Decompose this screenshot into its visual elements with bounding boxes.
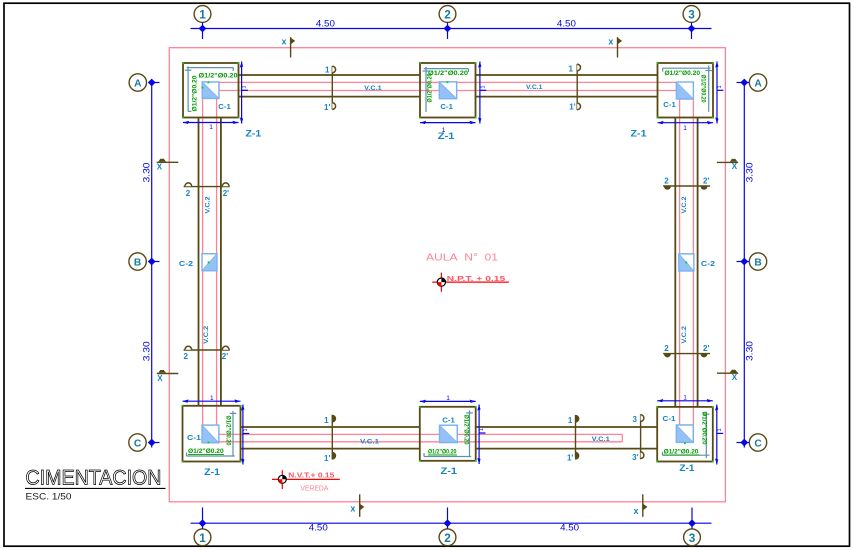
- section mark 1-1' top bay 2: [569, 64, 581, 112]
- section mark 2-2' right beam upper: [663, 177, 710, 190]
- svg-text:V.C.1: V.C.1: [360, 439, 380, 446]
- footing bottom-left rebar lines: [187, 411, 237, 456]
- level marker N.P.T. cross: [432, 273, 509, 292]
- svg-text:Ø1/2"Ø0.20: Ø1/2"Ø0.20: [188, 448, 224, 455]
- svg-text:Ø1/2"Ø0.20: Ø1/2"Ø0.20: [428, 70, 469, 77]
- svg-text:1: 1: [324, 416, 329, 425]
- section cut X bottom 1: [350, 494, 364, 517]
- section cut X top 1: [282, 37, 296, 58]
- svg-text:2': 2': [703, 344, 709, 353]
- grid bubble 3 top: [683, 6, 700, 23]
- footing bottom-right rebar lines: [662, 412, 709, 459]
- svg-text:AULA N° 01: AULA N° 01: [426, 252, 498, 263]
- footing Z-1 top-right square: [658, 63, 714, 118]
- svg-text:X: X: [732, 373, 738, 382]
- svg-text:2: 2: [186, 189, 191, 198]
- svg-text:V.C.1: V.C.1: [526, 84, 543, 91]
- svg-text:X: X: [157, 163, 163, 172]
- svg-text:A: A: [754, 79, 762, 90]
- svg-text:Ø1/2"Ø0.20: Ø1/2"Ø0.20: [701, 412, 708, 445]
- right dimension line: [737, 79, 750, 448]
- footing Z-1 bottom-right square: [657, 407, 713, 462]
- svg-text:2: 2: [664, 344, 669, 353]
- footing top-right rebar lines: [663, 66, 712, 112]
- svg-text:V.C.2: V.C.2: [681, 326, 688, 344]
- svg-text:x: x: [634, 506, 639, 516]
- svg-text:Ø1/2"Ø0.20: Ø1/2"Ø0.20: [428, 448, 457, 455]
- svg-text:1': 1': [569, 103, 575, 112]
- svg-text:C-2: C-2: [701, 259, 715, 268]
- green vertex dot footing top-right: [657, 62, 714, 118]
- beam V.C.1 top bay 1 outline: [239, 75, 421, 97]
- footing bottom-middle rebar label horizontal underlined: [428, 448, 457, 455]
- svg-text:1: 1: [199, 531, 206, 545]
- svg-text:4.50: 4.50: [309, 522, 328, 533]
- svg-text:1: 1: [717, 85, 723, 88]
- svg-text:C-1: C-1: [187, 433, 201, 442]
- beam V.C.1 top bay 2 outline: [476, 75, 658, 97]
- svg-text:2: 2: [664, 177, 669, 186]
- svg-text:2: 2: [184, 352, 189, 361]
- green vertex dot footing bottom-right: [656, 406, 713, 462]
- section mark 1-1' bottom bay 2: [567, 415, 579, 462]
- level marker N.V.T. cross: [272, 470, 340, 489]
- svg-text:1': 1': [567, 454, 573, 463]
- section mark 3-3' bottom bay 2: [632, 415, 644, 463]
- svg-text:X: X: [732, 162, 738, 171]
- svg-text:1: 1: [479, 428, 485, 431]
- svg-text:N.V.T.+ 0.15: N.V.T.+ 0.15: [288, 473, 334, 480]
- pink foundation wall top (horizontal pair): [219, 82, 676, 90]
- svg-text:Z-1: Z-1: [679, 463, 695, 474]
- svg-text:B: B: [134, 258, 141, 269]
- svg-text:1: 1: [446, 395, 450, 402]
- svg-text:1: 1: [243, 428, 249, 431]
- grid bubble B left: [129, 253, 146, 270]
- svg-text:1: 1: [209, 124, 213, 131]
- title CIMENTACION underlined: [25, 466, 166, 489]
- footing bottom-middle height dim: [477, 405, 485, 465]
- footing Z-1 bottom-middle square: [420, 407, 476, 461]
- footing bottom-left height dim: [241, 405, 249, 465]
- svg-text:Z-1: Z-1: [204, 467, 220, 478]
- svg-text:Ø1/2"Ø0.20: Ø1/2"Ø0.20: [463, 415, 470, 445]
- svg-text:C: C: [134, 439, 142, 450]
- green vertex dot footing top-left: [182, 62, 239, 118]
- svg-text:3.30: 3.30: [744, 341, 755, 361]
- svg-text:B: B: [754, 258, 761, 269]
- svg-text:3: 3: [689, 531, 696, 545]
- svg-text:Ø1/2"Ø0.20: Ø1/2"Ø0.20: [225, 416, 232, 446]
- beam V.C.1 bottom bay 2 outline: [476, 427, 658, 449]
- column C-1 bottom-left: [202, 425, 219, 443]
- svg-text:1: 1: [569, 65, 574, 74]
- pink foundation wall left (vertical pair): [203, 98, 217, 425]
- svg-text:1: 1: [199, 8, 206, 22]
- section cut X right 1: [717, 159, 738, 171]
- svg-text:1': 1': [324, 103, 330, 112]
- section cut X top 2: [608, 37, 622, 58]
- column C-1 bottom-middle: [440, 425, 458, 442]
- svg-text:4.50: 4.50: [560, 522, 579, 533]
- svg-text:1: 1: [568, 416, 573, 425]
- svg-text:Ø1/2"Ø0.20: Ø1/2"Ø0.20: [664, 448, 699, 455]
- section cut X right 2: [717, 370, 738, 382]
- section cut X bottom 2: [634, 494, 648, 517]
- footing top-middle width dim: [420, 121, 476, 124]
- grid bubble 1 top: [194, 6, 211, 23]
- grid bubble A left: [129, 74, 146, 91]
- svg-text:2': 2': [703, 177, 709, 186]
- grid bubble A right: [749, 74, 766, 91]
- svg-text:2: 2: [444, 8, 451, 22]
- svg-text:1: 1: [717, 428, 723, 431]
- section mark 1-1' top bay 1: [324, 66, 336, 112]
- footing top-left width dim: [183, 121, 239, 124]
- svg-text:2': 2': [222, 352, 228, 361]
- grid bubble 2 top: [439, 6, 456, 23]
- svg-text:1: 1: [325, 66, 330, 75]
- green vertex dot footing bottom-left: [182, 405, 242, 462]
- grid bubble 3 bottom: [684, 529, 701, 546]
- grid bubble C right: [749, 434, 766, 451]
- beam V.C.2 right outline: [675, 118, 697, 407]
- svg-text:N.P.T. + 0.15: N.P.T. + 0.15: [447, 274, 506, 283]
- svg-text:Z-1: Z-1: [438, 131, 456, 142]
- footing top-right width dim: [658, 121, 714, 124]
- svg-text:C-1: C-1: [442, 416, 455, 425]
- footing bottom-middle width dim: [420, 400, 476, 403]
- svg-text:1: 1: [683, 395, 687, 402]
- svg-text:1: 1: [481, 85, 487, 88]
- footing bottom-right rebar label horizontal underlined: [663, 448, 700, 455]
- green vertex dot footing bottom-middle: [419, 406, 477, 462]
- svg-text:1: 1: [242, 85, 248, 88]
- svg-text:CIMENTACION: CIMENTACION: [26, 466, 162, 489]
- svg-text:1': 1': [324, 454, 330, 463]
- footing Z-1 top-middle square: [420, 63, 476, 118]
- svg-text:C-1: C-1: [440, 102, 453, 111]
- svg-text:V.C.1: V.C.1: [592, 436, 611, 443]
- footing top-right height dim: [715, 62, 723, 124]
- bottom dimension line: [191, 508, 712, 529]
- column C-1 top-middle: [439, 81, 456, 98]
- svg-text:1: 1: [683, 125, 687, 132]
- section mark 2-2' right beam lower: [663, 344, 710, 357]
- svg-text:Ø1/2"Ø0.20: Ø1/2"Ø0.20: [192, 75, 199, 112]
- svg-text:2: 2: [444, 531, 451, 545]
- svg-text:C: C: [754, 439, 762, 450]
- footing bottom-right width dim: [657, 399, 713, 402]
- svg-text:4.50: 4.50: [316, 19, 335, 30]
- svg-text:Ø1/2"Ø0.20: Ø1/2"Ø0.20: [700, 75, 707, 103]
- grid bubble C left: [129, 434, 146, 451]
- footing bottom-right height dim: [715, 405, 723, 465]
- level marker N.P.T. circle: [437, 278, 445, 286]
- svg-text:3.30: 3.30: [141, 341, 152, 361]
- column C-2 right: [679, 254, 694, 271]
- svg-text:VEREDA: VEREDA: [300, 483, 328, 492]
- pink foundation wall right (vertical pair): [680, 99, 694, 425]
- column C-1 top-right: [676, 82, 693, 99]
- svg-text:V.C.2: V.C.2: [681, 196, 688, 213]
- svg-text:A: A: [134, 79, 142, 90]
- svg-text:C-1: C-1: [663, 100, 676, 109]
- svg-text:C-1: C-1: [218, 102, 231, 111]
- svg-text:C-2: C-2: [179, 259, 193, 268]
- svg-text:2': 2': [223, 189, 229, 198]
- beam V.C.2 left outline: [199, 118, 221, 406]
- svg-text:3: 3: [688, 8, 695, 22]
- footing top-left rebar lines: [185, 66, 233, 111]
- section mark 1-1' bottom bay 1: [324, 415, 336, 463]
- svg-text:Z-1: Z-1: [441, 466, 458, 477]
- footing top-middle height dim: [478, 62, 486, 124]
- svg-text:Ø1/2"Ø0.20: Ø1/2"Ø0.20: [665, 70, 701, 77]
- column C-1 bottom-right: [676, 425, 693, 444]
- svg-text:3.30: 3.30: [744, 162, 755, 182]
- level marker N.V.T. circle: [278, 475, 286, 483]
- svg-text:3: 3: [633, 415, 638, 424]
- section mark 2-2' left beam upper: [184, 183, 230, 198]
- svg-text:V.C.2: V.C.2: [204, 196, 211, 213]
- svg-text:V.C.1: V.C.1: [364, 85, 382, 92]
- column C-1 top-left: [202, 82, 219, 99]
- top dimension line: [191, 23, 712, 40]
- svg-text:Z-1: Z-1: [631, 128, 648, 139]
- svg-text:3': 3': [632, 453, 638, 462]
- footing top-left height dim: [240, 62, 248, 124]
- footing bottom-left rebar label horizontal underlined: [188, 448, 224, 455]
- svg-text:x: x: [608, 37, 613, 47]
- footing bottom-left width dim: [183, 399, 241, 402]
- footing Z-1 bottom-left square: [183, 406, 241, 462]
- pink perimeter wall outline: [169, 48, 725, 502]
- svg-text:1: 1: [210, 395, 214, 402]
- svg-text:x: x: [282, 37, 287, 47]
- green vertex dot footing top-middle: [419, 62, 476, 118]
- grid bubble 1 bottom: [194, 529, 211, 546]
- svg-text:x: x: [350, 503, 355, 513]
- svg-text:Ø1/2"Ø0.20: Ø1/2"Ø0.20: [199, 72, 239, 79]
- section cut X left 2: [157, 370, 179, 383]
- svg-text:C-1: C-1: [663, 414, 676, 423]
- svg-text:ESC. 1/50: ESC. 1/50: [26, 492, 72, 502]
- svg-text:Z-1: Z-1: [246, 128, 262, 139]
- svg-text:4.50: 4.50: [557, 19, 576, 30]
- section cut X left 1: [157, 159, 179, 172]
- grid bubble 2 bottom: [439, 529, 456, 546]
- footing top-middle rebar lines: [423, 67, 469, 112]
- left dimension line: [148, 79, 160, 448]
- pink foundation wall bottom (horizontal pair): [219, 434, 622, 441]
- grid bubble B right: [749, 253, 766, 270]
- beam V.C.1 bottom bay 1 outline: [241, 427, 420, 449]
- footing bottom-middle rebar lines: [424, 411, 473, 457]
- svg-text:Ø1/2"Ø0.20: Ø1/2"Ø0.20: [427, 73, 434, 102]
- column C-2 left: [202, 254, 217, 271]
- footing Z-1 top-left square: [183, 63, 239, 118]
- svg-text:3.30: 3.30: [141, 163, 152, 183]
- svg-text:V.C.2: V.C.2: [203, 325, 210, 344]
- section mark 2-2' left beam lower: [184, 346, 230, 361]
- svg-text:X: X: [157, 374, 163, 383]
